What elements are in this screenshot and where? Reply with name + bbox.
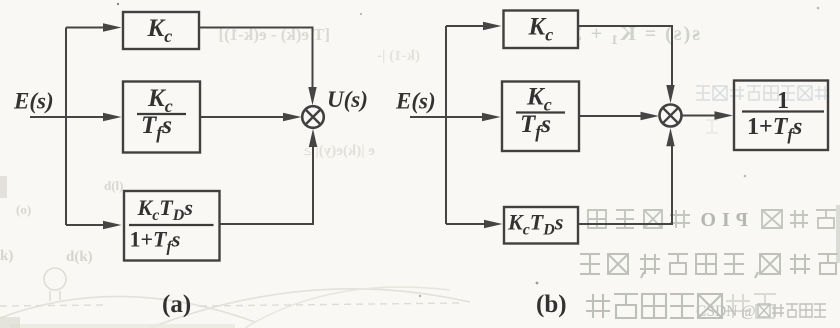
- arrowhead into summer top (b): [666, 85, 674, 103]
- block Kc/Tfs (b): [502, 82, 579, 152]
- block KcTDs/(1+Tfs) (a): [124, 191, 220, 261]
- arrowhead into summer bottom (a): [309, 129, 317, 147]
- arrowhead into summer left (a): [283, 113, 302, 121]
- svg-text:U(s): U(s): [327, 87, 368, 112]
- arrowhead into middle box (b): [482, 113, 501, 121]
- ghost bleed-through row 1: [588, 210, 836, 228]
- wire top branch (a): [66, 27, 106, 29]
- arrowhead into summer bottom (b): [666, 128, 674, 146]
- svg-text:(b): (b): [536, 291, 567, 318]
- wire E(s) input (b): [410, 116, 487, 118]
- watermark CJK pseudo-glyphs: [758, 304, 826, 317]
- svg-text:PIO: PIO: [694, 209, 748, 231]
- wire bottom out to summer (a): [220, 144, 314, 224]
- svg-text:E(s): E(s): [395, 89, 436, 114]
- wire Kc out to summer (a): [199, 28, 313, 91]
- svg-text:(a): (a): [162, 291, 191, 318]
- svg-text:1+Tfs: 1+Tfs: [747, 114, 802, 144]
- arrowhead into top box (a): [103, 23, 122, 31]
- arrowhead into summer top (a): [308, 87, 316, 105]
- dust speck below output box: [744, 175, 747, 178]
- arrowhead into bottom box (b): [484, 220, 503, 228]
- summer circle (a): [302, 106, 324, 128]
- wire middle out (a): [200, 116, 286, 118]
- svg-text:KcTDs: KcTDs: [137, 195, 193, 224]
- summer circle (b): [660, 105, 682, 127]
- ghost bleed-through inside output box: [696, 86, 829, 133]
- ghost bleed-through row 2: [580, 254, 838, 278]
- arrowhead into summer left (b): [641, 112, 660, 120]
- block Kc/Tfs (a): [123, 82, 200, 153]
- wire top branch (b): [446, 25, 486, 27]
- wire bottom branch (a): [66, 224, 106, 226]
- svg-text:(k-1) |-: (k-1) |-: [377, 48, 420, 64]
- arrowhead into bottom box (a): [103, 221, 122, 229]
- wire summer to output box (b): [682, 115, 718, 117]
- ghost bleed-through row 3 faint right part: [726, 294, 776, 318]
- arrowhead into middle box (a): [103, 113, 122, 121]
- svg-text:KcTDs: KcTDs: [507, 210, 563, 239]
- node branch vertical (b): [445, 26, 447, 224]
- wire bottom branch (b): [446, 223, 486, 225]
- svg-text:d(l): d(l): [104, 178, 124, 193]
- svg-text:d(k): d(k): [66, 249, 93, 265]
- bottom edge smudges: [10, 324, 235, 328]
- svg-text:1: 1: [777, 88, 789, 114]
- block Kc (b): [504, 11, 579, 49]
- svg-text:1+Tfs: 1+Tfs: [130, 227, 181, 256]
- block Kc (a): [123, 12, 199, 49]
- wire Kc out to summer (b): [578, 26, 672, 86]
- svg-text:CSDN @: CSDN @: [696, 303, 756, 320]
- arrowhead into top box (b): [483, 22, 502, 30]
- arrowhead into output box (b): [715, 111, 734, 119]
- svg-text:E(s): E(s): [13, 89, 54, 114]
- wire middle out (b): [579, 115, 644, 117]
- ghost text bottom-left: [0, 178, 124, 265]
- svg-text:(o): (o): [16, 202, 31, 217]
- ghost bleed-through formulas diagram a area: [218, 25, 420, 159]
- wire E(s) input (a): [30, 116, 108, 118]
- block KcTDs (b): [504, 207, 578, 244]
- dust specks: [117, 3, 820, 297]
- block 1/(1+Tfs) (b): [734, 81, 828, 151]
- ghost marks bottom-left: [0, 268, 470, 328]
- svg-text:k): k): [0, 248, 13, 264]
- node branch vertical (a): [65, 28, 67, 226]
- ghost bleed-through row 3: [586, 294, 722, 318]
- wire bottom out to summer (b): [578, 146, 672, 224]
